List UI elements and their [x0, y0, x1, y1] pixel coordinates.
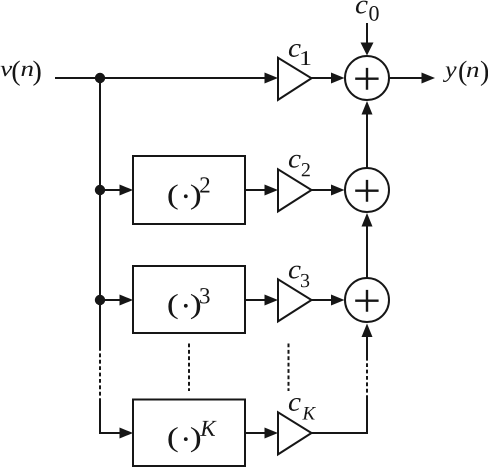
wire c0 into adder 1 — [366, 23, 368, 43]
adder 1 plus sign — [355, 68, 378, 90]
wire to block 3 — [100, 299, 120, 301]
wire arrowhead into block K — [120, 428, 134, 439]
wire adder 3 to adder 2 — [366, 226, 368, 278]
wire main vertical solid — [99, 78, 101, 347]
wire arrowhead into adder 3 — [331, 295, 345, 306]
wire arrowhead into amplifier cK — [265, 428, 279, 439]
adder 3 plus sign — [355, 290, 378, 312]
wire amplifier c3 to adder 3 — [312, 299, 332, 301]
block (.)^2 squarer — [133, 156, 245, 224]
wire arrowhead into adder 1 — [331, 73, 345, 84]
amplifier c2 triangle — [278, 169, 312, 211]
wire amplifier c1 to adder 1 — [312, 77, 332, 79]
node junction dot 2 — [95, 185, 105, 195]
block (.)^2 label — [168, 177, 209, 209]
wire arrowhead into block 3 — [120, 295, 134, 306]
wire arrowhead into amplifier c1 — [265, 73, 279, 84]
wire arrowhead into block 2 — [120, 185, 134, 196]
amplifier cK triangle — [278, 412, 312, 454]
wire solid into adder 3 from below — [366, 336, 368, 358]
wire arrowhead into amplifier c3 — [265, 295, 279, 306]
node v(n) input label — [1, 60, 41, 85]
wire arrowhead into adder 3 bottom — [362, 324, 373, 338]
node y(n) output label — [443, 61, 488, 86]
block (.)^K — [133, 400, 245, 467]
adder 2 plus sign — [355, 180, 378, 202]
block (.)^3 cuber — [133, 266, 245, 333]
label c1 — [289, 44, 311, 65]
node junction dot 3 — [95, 295, 105, 305]
amplifier c3 triangle — [278, 279, 312, 321]
wire amplifier c2 to adder 2 — [312, 189, 332, 191]
wire dashed right column — [366, 358, 368, 400]
label c0 — [356, 1, 379, 21]
wire adder 1 output — [389, 77, 422, 79]
wire dashed continuation below amplifiers — [288, 344, 290, 392]
wire main vertical dashed — [99, 347, 101, 399]
block (.)^3 label — [168, 288, 209, 319]
wire arrowhead into adder 2 bottom — [362, 213, 373, 227]
wire block 3 output — [245, 299, 265, 301]
wire block 2 output — [245, 189, 265, 191]
adder 2 circle — [345, 168, 389, 212]
wire arrowhead to y(n) — [422, 73, 436, 84]
wire arrowhead into adder 2 — [331, 185, 345, 196]
wire dashed continuation below blocks — [188, 344, 190, 392]
wire arrowhead c0 into adder 1 top — [361, 43, 374, 56]
adder 3 circle — [345, 278, 389, 322]
wire main vertical bottom elbow — [100, 399, 120, 433]
block (.)^K label — [168, 421, 216, 453]
wire input horizontal — [55, 77, 265, 79]
label c2 — [289, 155, 310, 177]
label c3 — [289, 266, 309, 288]
wire arrowhead into amplifier c2 — [265, 185, 279, 196]
wire amplifier cK elbow up — [312, 399, 368, 433]
label cK — [289, 398, 316, 420]
adder 1 circle — [345, 56, 389, 100]
wire block K output — [245, 432, 265, 434]
wire adder 2 to adder 1 — [366, 114, 368, 168]
wire to block 2 — [100, 189, 120, 191]
wire arrowhead into adder 1 bottom — [362, 101, 373, 115]
amplifier c1 triangle — [278, 58, 312, 100]
node junction dot 1 — [95, 73, 105, 83]
